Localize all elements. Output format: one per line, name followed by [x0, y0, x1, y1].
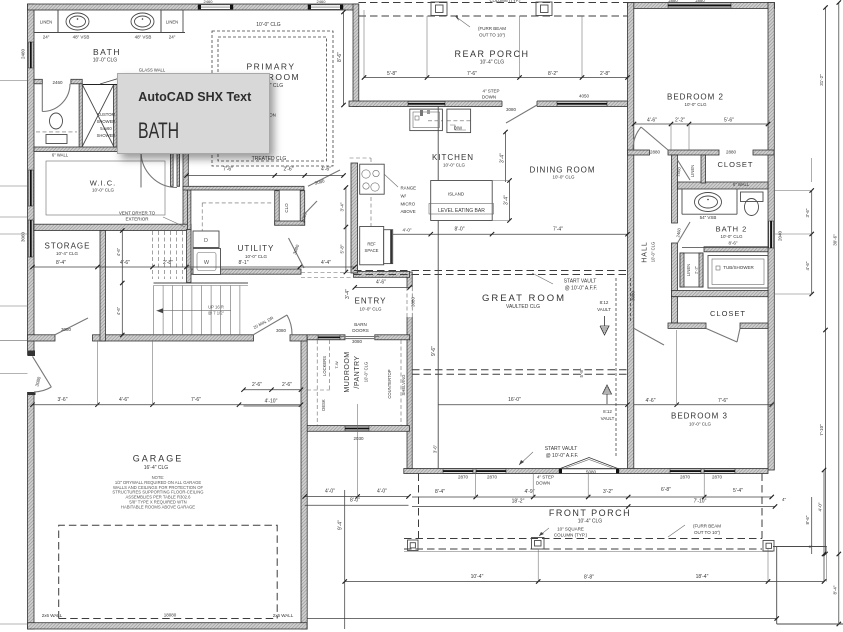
- wall toilet room north b: [71, 79, 82, 84]
- svg-text:10'-0" CLG: 10'-0" CLG: [553, 175, 575, 180]
- svg-text:GARAGE: GARAGE: [133, 454, 184, 464]
- svg-text:START VAULT: START VAULT: [564, 279, 597, 285]
- svg-text:10'-4" CLG: 10'-4" CLG: [56, 251, 78, 256]
- stair landing line: [154, 282, 249, 284]
- dim closet1 vertical: [811, 158, 813, 182]
- wall toilet/shower divider: [79, 84, 82, 147]
- svg-text:10'-0" CLG: 10'-0" CLG: [93, 58, 118, 64]
- svg-text:6": 6": [809, 544, 813, 549]
- svg-text:D: D: [204, 238, 208, 244]
- svg-text:10'-4" CLG: 10'-4" CLG: [480, 60, 505, 66]
- rear porch column a: [431, 2, 447, 16]
- svg-text:9'-4": 9'-4": [338, 520, 344, 530]
- svg-text:HABITABLE ROOMS ABOVE GARAGE: HABITABLE ROOMS ABOVE GARAGE: [121, 504, 195, 509]
- sink bath left: [66, 13, 89, 30]
- wall kitchen west: [351, 163, 358, 273]
- door utility 3080 leaf: [289, 238, 305, 268]
- svg-text:2'-6": 2'-6": [284, 167, 294, 173]
- svg-text:7'-6": 7'-6": [467, 71, 477, 77]
- bottom grade lines: [307, 618, 777, 620]
- svg-text:10'-4": 10'-4": [471, 574, 484, 580]
- dim kitchen/dining row: [393, 233, 628, 235]
- wall clo right: [300, 191, 305, 226]
- svg-text:4'-6": 4'-6": [120, 260, 130, 266]
- svg-text:16'-4" CLG: 16'-4" CLG: [144, 465, 169, 471]
- window kitchen sink 4050-a: [408, 102, 445, 107]
- svg-text:7'-6": 7'-6": [191, 397, 201, 403]
- svg-text:UP 16 R: UP 16 R: [208, 305, 224, 310]
- dim front porch row1: [412, 496, 772, 498]
- window primary top 2460 b: [308, 5, 343, 10]
- svg-text:2x6 WALL: 2x6 WALL: [42, 613, 63, 618]
- window 2040 bath2 right wall: [769, 221, 774, 248]
- svg-text:2460: 2460: [21, 48, 26, 59]
- wall bedroom2 south segment b: [668, 150, 719, 155]
- svg-text:ABOVE: ABOVE: [401, 209, 416, 214]
- wall bedroom3 north segment a: [668, 323, 706, 328]
- wall clo bottom: [275, 221, 305, 225]
- svg-text:3'-4": 3'-4": [500, 153, 506, 163]
- svg-text:3080: 3080: [631, 290, 636, 301]
- svg-text:8'-8": 8'-8": [584, 575, 594, 581]
- svg-text:3060: 3060: [21, 231, 26, 242]
- svg-text:4'-0": 4'-0": [403, 228, 412, 233]
- svg-text:2870: 2870: [487, 475, 498, 480]
- svg-text:LEVEL EATING BAR: LEVEL EATING BAR: [438, 208, 485, 214]
- svg-text:6" WALL: 6" WALL: [52, 153, 69, 158]
- wall closet2 west: [672, 297, 678, 323]
- wall shower east: [114, 85, 118, 148]
- dim rear porch: [364, 77, 628, 79]
- front porch edge dashed b: [404, 548, 762, 550]
- wall kitchen/dining north: [349, 101, 628, 107]
- rear porch beam dashed b: [359, 15, 628, 17]
- door toilet 2460 leaf: [41, 84, 43, 112]
- dim garage top row: [33, 404, 302, 406]
- wall garage north a: [28, 335, 56, 341]
- door clo 2060 leaf: [305, 201, 318, 214]
- window great room 2870 a: [443, 469, 473, 473]
- wall bath2 tub north: [704, 247, 768, 252]
- svg-text:3'-4": 3'-4": [345, 289, 351, 299]
- utility wd dashed: [202, 202, 273, 204]
- island: [431, 181, 493, 221]
- svg-text:8'-6": 8'-6": [805, 515, 810, 524]
- svg-text:8'-2": 8'-2": [548, 71, 558, 77]
- svg-text:START VAULT: START VAULT: [545, 446, 578, 452]
- dim right margin line1: [811, 191, 813, 295]
- svg-text:DOORS: DOORS: [352, 328, 369, 333]
- door linen1 2060: [678, 160, 691, 180]
- svg-text:5'-6": 5'-6": [724, 118, 734, 124]
- svg-text:2870: 2870: [712, 475, 723, 480]
- svg-text:2880: 2880: [695, 0, 705, 3]
- svg-text:REAR PORCH: REAR PORCH: [454, 49, 529, 59]
- svg-text:HALL: HALL: [642, 241, 649, 263]
- svg-text:2460: 2460: [52, 80, 63, 85]
- wall vestibule b: [177, 152, 180, 187]
- svg-text:48" VSB: 48" VSB: [73, 35, 90, 40]
- wall garage north c: [290, 335, 307, 341]
- dw counter dashed: [447, 120, 471, 122]
- svg-text:4'-0": 4'-0": [818, 502, 823, 511]
- svg-text:STORAGE: STORAGE: [45, 242, 91, 251]
- svg-text:18'-2": 18'-2": [512, 499, 525, 505]
- svg-text:4'-10": 4'-10": [265, 399, 278, 405]
- window mudroom 2030: [345, 426, 369, 431]
- door wic swing: [141, 152, 177, 188]
- svg-text:4" STEP: 4" STEP: [482, 89, 499, 94]
- svg-text:SHOWER: SHOWER: [97, 119, 116, 124]
- wall primary east: [353, 4, 359, 107]
- svg-text:8'-0": 8'-0": [455, 227, 465, 233]
- toilet 2 tank: [741, 192, 764, 202]
- svg-text:24": 24": [43, 35, 50, 40]
- svg-text:SPACE: SPACE: [365, 248, 379, 253]
- front porch column a: [408, 540, 419, 551]
- dim right lower vertical: [823, 470, 825, 582]
- svg-text:W.I.C.: W.I.C.: [90, 179, 116, 188]
- wall hall east: [672, 155, 678, 223]
- svg-text:4" STEP: 4" STEP: [537, 475, 554, 480]
- door primary 3080 leaf: [308, 170, 340, 186]
- svg-text:BARN: BARN: [354, 322, 367, 327]
- svg-text:W: W: [204, 260, 210, 266]
- wall wic east / primary west: [183, 152, 188, 230]
- svg-text:3'-6": 3'-6": [58, 397, 68, 403]
- svg-text:24": 24": [169, 35, 176, 40]
- wall mudroom north b: [375, 335, 410, 340]
- svg-text:TUB/SHOWER: TUB/SHOWER: [723, 265, 754, 270]
- vault line1 dashed b: [354, 274, 628, 276]
- primary ceiling dashed box inner: [218, 37, 327, 161]
- svg-text:MICRO: MICRO: [401, 202, 416, 207]
- dim primary east vertical: [343, 12, 345, 105]
- svg-text:COLUMN (TYP.): COLUMN (TYP.): [490, 0, 521, 3]
- vault arrow down: [600, 316, 609, 335]
- svg-text:D/W: D/W: [454, 126, 462, 131]
- svg-text:(FURR BEAM: (FURR BEAM: [693, 524, 721, 529]
- window bedroom2 2880x2: [668, 3, 731, 8]
- window bedroom3 2870 a: [670, 469, 701, 473]
- front porch left dashed: [418, 474, 420, 539]
- dim bedroom3 row: [634, 404, 772, 406]
- wall linen2 box: [680, 253, 703, 287]
- tooltip AutoCAD SHX Text: [117, 73, 270, 154]
- wall garage north b: [93, 335, 254, 341]
- svg-text:4": 4": [782, 497, 787, 502]
- svg-text:@ 10'-0" A.F.F.: @ 10'-0" A.F.F.: [546, 453, 579, 459]
- svg-text:18080: 18080: [164, 613, 177, 618]
- door bedroom3 entry 2880 swing: [634, 328, 664, 345]
- cased opening utility-entry dashed: [301, 272, 354, 274]
- svg-text:/PANTRY: /PANTRY: [354, 355, 361, 388]
- wall mudroom north a: [307, 335, 345, 340]
- wall closet1 south (6in wall): [678, 182, 769, 189]
- door 20min garage leaf: [253, 315, 287, 335]
- mudroom shelving dashed: [400, 340, 402, 425]
- dim kitchen vertical: [505, 132, 507, 182]
- svg-text:COUNTERTOP: COUNTERTOP: [387, 369, 392, 398]
- svg-text:OUT TO 10"): OUT TO 10"): [479, 33, 506, 38]
- svg-text:4050: 4050: [579, 94, 590, 99]
- wall bath south 6in: [34, 147, 171, 152]
- window bedroom3 2870 b: [704, 469, 735, 473]
- svg-text:CLO: CLO: [284, 203, 289, 213]
- ref space box: [360, 227, 384, 265]
- wall bedroom2 north: [628, 3, 775, 9]
- vault arrow up: [603, 385, 612, 404]
- kitchen sink: [410, 109, 443, 131]
- svg-text:10'-0" CLG: 10'-0" CLG: [92, 188, 114, 193]
- dim front porch row2: [412, 506, 628, 508]
- svg-text:18'-4": 18'-4": [696, 574, 709, 580]
- svg-text:7'-6": 7'-6": [223, 167, 233, 173]
- svg-text:7'-10": 7'-10": [694, 499, 707, 505]
- svg-text:4'-6": 4'-6": [116, 306, 121, 315]
- wall primary south: [183, 186, 304, 190]
- svg-text:2'-2": 2'-2": [694, 265, 699, 274]
- svg-text:3'-6": 3'-6": [805, 208, 810, 217]
- wall utility west: [187, 190, 191, 274]
- svg-text:3'-2": 3'-2": [603, 489, 613, 495]
- dim kitchen west vertical: [345, 188, 347, 273]
- svg-text:8'-0": 8'-0": [350, 498, 360, 504]
- dim storage row: [33, 266, 187, 268]
- wall bedroom3 north segment b: [740, 323, 768, 328]
- svg-text:GREAT ROOM: GREAT ROOM: [482, 293, 566, 304]
- wall entry north: [354, 272, 410, 278]
- svg-text:BEDROOM 3: BEDROOM 3: [671, 412, 728, 421]
- dim island vertical: [509, 181, 511, 221]
- vault ridge dashed vertical: [615, 278, 617, 458]
- primary ceiling dashed box outer: [212, 31, 333, 166]
- dim garage bump rows: [305, 496, 409, 498]
- svg-text:4'-6": 4'-6": [647, 118, 657, 124]
- door swing garage side: [34, 387, 51, 392]
- svg-text:6'-8": 6'-8": [661, 487, 671, 493]
- front porch edge dashed a: [404, 538, 762, 540]
- wall closet1/linen divider: [701, 155, 706, 183]
- dim entry: [355, 286, 410, 288]
- svg-text:DINING ROOM: DINING ROOM: [529, 166, 595, 175]
- window great room 5080: [559, 469, 619, 473]
- svg-text:4'-0": 4'-0": [377, 489, 387, 495]
- svg-text:2870: 2870: [680, 475, 691, 480]
- svg-text:5'-8": 5'-8": [579, 368, 584, 377]
- svg-text:LINEN: LINEN: [686, 264, 691, 276]
- wall stair east: [187, 230, 192, 283]
- svg-text:6" WALL: 6" WALL: [733, 182, 750, 187]
- svg-text:8'-1": 8'-1": [239, 260, 249, 266]
- dim right margin line3: [838, 3, 840, 625]
- door leaf garage side 3080: [33, 356, 52, 387]
- wall left exterior: [28, 4, 35, 629]
- svg-text:4'-4": 4'-4": [321, 260, 331, 266]
- range with burners: [360, 164, 385, 194]
- wall bedroom2 south segment c: [753, 150, 774, 155]
- svg-text:2x6 WALL: 2x6 WALL: [273, 613, 294, 618]
- wall top (bath/primary): [28, 4, 359, 10]
- svg-text:3'-4": 3'-4": [339, 202, 344, 211]
- svg-text:8'-4": 8'-4": [832, 585, 837, 594]
- svg-text:LINEN: LINEN: [166, 20, 178, 25]
- svg-text:9'-6": 9'-6": [431, 346, 437, 356]
- wall toilet room north a: [34, 79, 42, 84]
- window 2460 left wall top: [29, 42, 34, 68]
- front porch column c: [763, 541, 774, 552]
- svg-text:5'-8": 5'-8": [339, 244, 344, 253]
- door bedroom2 2880 swing: [641, 127, 668, 150]
- front porch column b: [532, 538, 545, 550]
- svg-text:2040: 2040: [778, 230, 783, 241]
- wall bath2 south: [672, 291, 769, 297]
- dim wic/primary row: [187, 175, 344, 177]
- dim great room width: [438, 404, 627, 406]
- svg-text:CLOSET: CLOSET: [717, 160, 753, 169]
- cased opening entry-greatroom 3080: [407, 287, 413, 317]
- bath2 vanity: [681, 189, 683, 214]
- toilet room dashed: [36, 131, 77, 133]
- svg-text:DOWN: DOWN: [536, 481, 550, 486]
- wall utility south a: [190, 269, 301, 274]
- dim front porch row3: [345, 581, 824, 583]
- svg-text:VAULTED CLG: VAULTED CLG: [506, 304, 540, 310]
- garage door dashed outline: [59, 525, 278, 618]
- svg-text:PRIMARY: PRIMARY: [246, 62, 295, 72]
- front porch right dashed: [761, 474, 763, 539]
- svg-text:54x60: 54x60: [100, 126, 112, 131]
- svg-text:BEDROOM 2: BEDROOM 2: [667, 93, 724, 102]
- svg-text:3'-4": 3'-4": [504, 195, 510, 205]
- washer box: [193, 231, 219, 248]
- svg-text:FRONT PORCH: FRONT PORCH: [549, 508, 631, 518]
- svg-text:4'-0": 4'-0": [325, 489, 335, 495]
- svg-text:UTILITY: UTILITY: [238, 244, 275, 253]
- svg-text:2030: 2030: [353, 436, 364, 441]
- svg-text:5'-8": 5'-8": [387, 71, 397, 77]
- svg-text:DESK: DESK: [321, 399, 326, 411]
- svg-text:LOCKERS: LOCKERS: [322, 356, 327, 376]
- svg-text:W/: W/: [401, 194, 407, 199]
- svg-text:10'-0" CLG: 10'-0" CLG: [651, 242, 656, 262]
- stair run B treads: [153, 286, 155, 336]
- svg-text:2880: 2880: [726, 150, 737, 155]
- svg-text:2880: 2880: [668, 0, 678, 3]
- great room west thin line: [437, 107, 439, 469]
- svg-text:EXTERIOR: EXTERIOR: [125, 217, 149, 222]
- wall entry/great room west: [407, 272, 412, 469]
- svg-text:8:12: 8:12: [600, 300, 609, 305]
- svg-text:TREATED CLG: TREATED CLG: [252, 156, 287, 162]
- svg-text:RANGE: RANGE: [401, 186, 417, 191]
- door closet2 2880 swing: [706, 328, 740, 342]
- wall hall/bedroom3 west: [628, 3, 634, 471]
- wall mudroom south: [302, 426, 409, 432]
- dryer box: [193, 249, 221, 275]
- svg-text:2880: 2880: [650, 150, 661, 155]
- door gap kitchen rear 3080: [502, 101, 537, 108]
- svg-text:ISLAND: ISLAND: [448, 192, 465, 197]
- toilet 2 bowl: [745, 199, 759, 216]
- dim bottom right tick: [775, 616, 779, 620]
- wall vestibule a: [171, 152, 174, 187]
- svg-text:10'-0" CLG: 10'-0" CLG: [685, 102, 707, 107]
- svg-text:8'-6": 8'-6": [337, 52, 343, 62]
- svg-text:BATH 2: BATH 2: [716, 225, 748, 234]
- svg-text:3080: 3080: [352, 339, 363, 344]
- dim bedroom2: [634, 123, 768, 125]
- svg-text:2'-2": 2'-2": [675, 118, 685, 124]
- rear porch column b: [536, 2, 552, 16]
- dim bath2 interior: [682, 247, 768, 249]
- svg-text:REF: REF: [367, 242, 376, 247]
- dim storage vertical: [121, 231, 123, 336]
- svg-text:2460: 2460: [317, 0, 327, 4]
- dim mudroom rows: [244, 389, 302, 391]
- barn door track: [340, 336, 379, 338]
- svg-text:3080: 3080: [506, 107, 517, 112]
- wall wic south / storage north: [34, 224, 191, 230]
- svg-text:10'-0" CLG: 10'-0" CLG: [245, 254, 267, 259]
- rear porch beam dashed a: [359, 2, 628, 4]
- svg-text:LINEN: LINEN: [40, 20, 52, 25]
- svg-text:LINEN: LINEN: [690, 165, 695, 177]
- svg-text:8'-4": 8'-4": [435, 489, 445, 495]
- dim stairs row: [187, 266, 355, 268]
- svg-text:T-W: T-W: [334, 361, 339, 369]
- svg-text:2'-6": 2'-6": [282, 382, 292, 388]
- front porch slab line: [404, 551, 773, 553]
- vault line1 dashed a: [354, 270, 628, 272]
- door leaf kitchen rear: [506, 105, 537, 123]
- svg-text:10'-4" CLG: 10'-4" CLG: [578, 519, 603, 525]
- svg-text:16'-0": 16'-0": [508, 397, 521, 403]
- dim bump vertical: [344, 490, 346, 629]
- door bath2 2460: [678, 222, 691, 243]
- sink bath2: [695, 193, 722, 212]
- svg-text:48" VSB: 48" VSB: [135, 35, 152, 40]
- door storage 3080 leaf: [55, 318, 88, 335]
- wall right exterior: [768, 3, 774, 471]
- tub shower box: [708, 256, 768, 289]
- wall front (great room / bedroom3 south): [404, 469, 768, 474]
- svg-text:31'-2": 31'-2": [819, 74, 824, 86]
- svg-text:CLOSET: CLOSET: [710, 309, 746, 318]
- vanity counter bath: [34, 32, 185, 34]
- svg-text:4'-6": 4'-6": [805, 261, 810, 270]
- svg-text:2'-8": 2'-8": [600, 71, 610, 77]
- svg-text:3'-6": 3'-6": [433, 444, 438, 453]
- svg-text:7'-6": 7'-6": [718, 398, 728, 404]
- svg-text:8:12: 8:12: [603, 409, 612, 414]
- svg-text:COLUMN (TYP.): COLUMN (TYP.): [554, 533, 588, 538]
- wall bedroom2 south segment a: [628, 150, 650, 155]
- lockers dashed: [316, 340, 318, 425]
- svg-text:ENTRY: ENTRY: [355, 297, 387, 306]
- svg-text:10'-0" CLG: 10'-0" CLG: [721, 234, 743, 239]
- wall garage south: [28, 623, 308, 629]
- svg-text:OUT TO 10"): OUT TO 10"): [694, 530, 721, 535]
- dishwasher box: [447, 109, 471, 133]
- svg-text:3080: 3080: [276, 328, 287, 333]
- svg-text:5'-4": 5'-4": [733, 488, 743, 494]
- wic shelf outline: [46, 161, 165, 215]
- sink bath right: [131, 13, 154, 30]
- window great room 2870 b: [476, 469, 506, 473]
- svg-text:4'-6": 4'-6": [116, 247, 121, 256]
- svg-text:7'-10": 7'-10": [819, 424, 824, 436]
